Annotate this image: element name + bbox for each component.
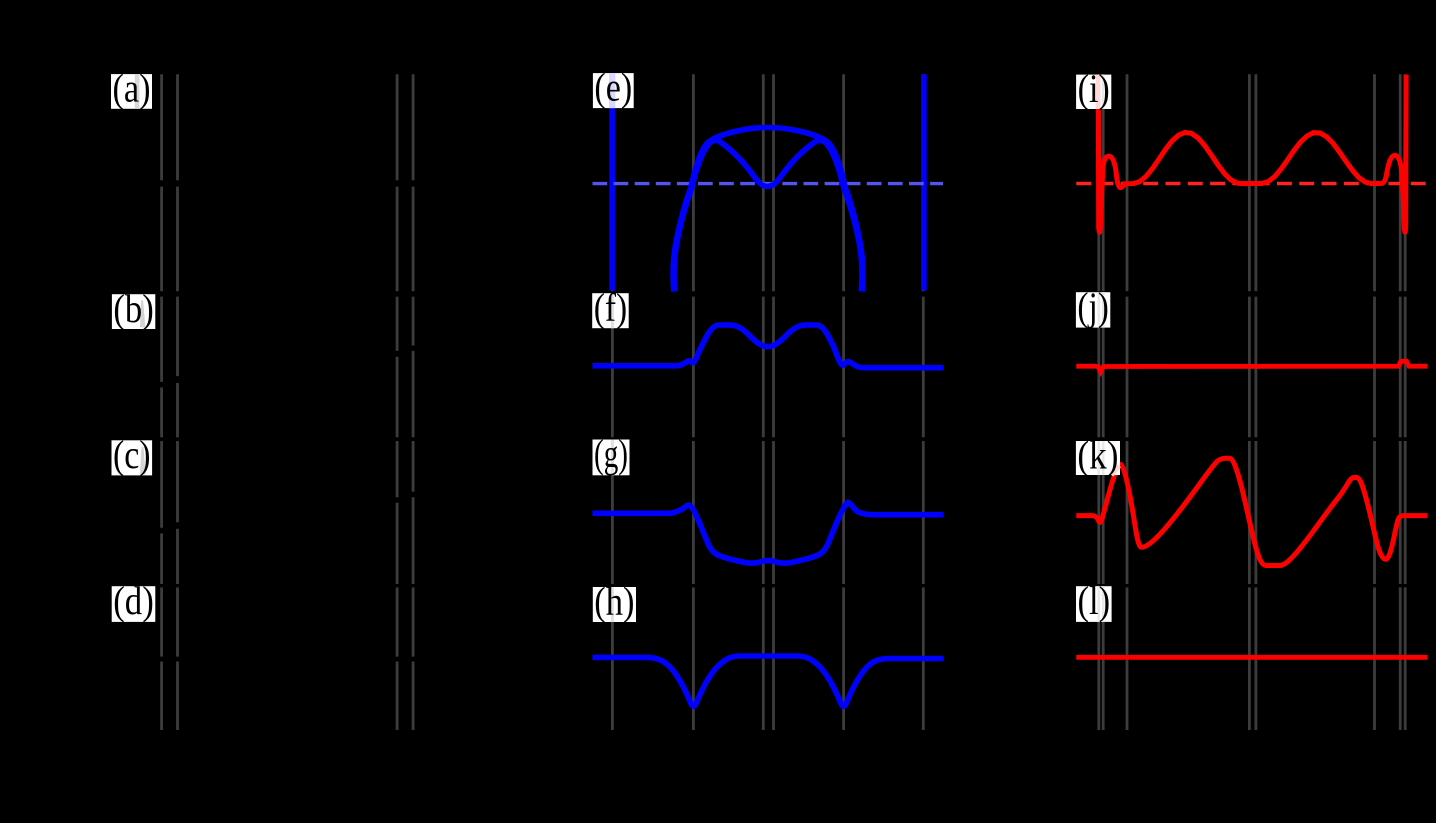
svg-text:(j): (j) [1077,284,1108,329]
svg-text:(h): (h) [594,579,634,624]
svg-text:(i): (i) [1078,66,1110,111]
PANEL (g) [593,502,944,563]
GRIDLINES RIGHT COLUMN [1099,74,1405,730]
row3 [162,441,414,584]
(f) [592,293,629,328]
GRIDLINES MIDDLE COLUMN [612,74,923,730]
(d) [112,586,156,622]
PANEL (f) [593,325,944,368]
svg-text:(e): (e) [594,65,632,110]
row4 [162,587,414,730]
(a) [111,74,152,109]
(k) [1076,441,1120,475]
svg-text:(d): (d) [113,578,154,623]
svg-text:(c): (c) [113,432,151,477]
PANEL (i) [1076,75,1426,233]
row2 [162,297,414,438]
svg-text:(f): (f) [594,285,628,330]
(c) [112,440,153,475]
(i) [1076,75,1111,109]
PANEL (l) [1076,655,1427,660]
PANEL (k) [1076,458,1427,565]
svg-text:(b): (b) [113,286,153,331]
(j) [1076,292,1110,327]
(g) [593,440,630,476]
(h) [593,587,636,622]
svg-text:(l): (l) [1078,578,1111,623]
(e) [593,73,634,108]
PANEL (h) [593,656,944,706]
GRIDLINES LEFT COLUMN [162,74,414,730]
(l) [1076,586,1112,622]
PANEL (j) [1076,361,1427,372]
svg-text:(g): (g) [594,431,628,476]
svg-text:(k): (k) [1077,433,1118,478]
row1 [162,74,414,291]
svg-text:(a): (a) [113,66,151,111]
(b) [112,294,155,329]
PANEL (e) [593,74,944,291]
